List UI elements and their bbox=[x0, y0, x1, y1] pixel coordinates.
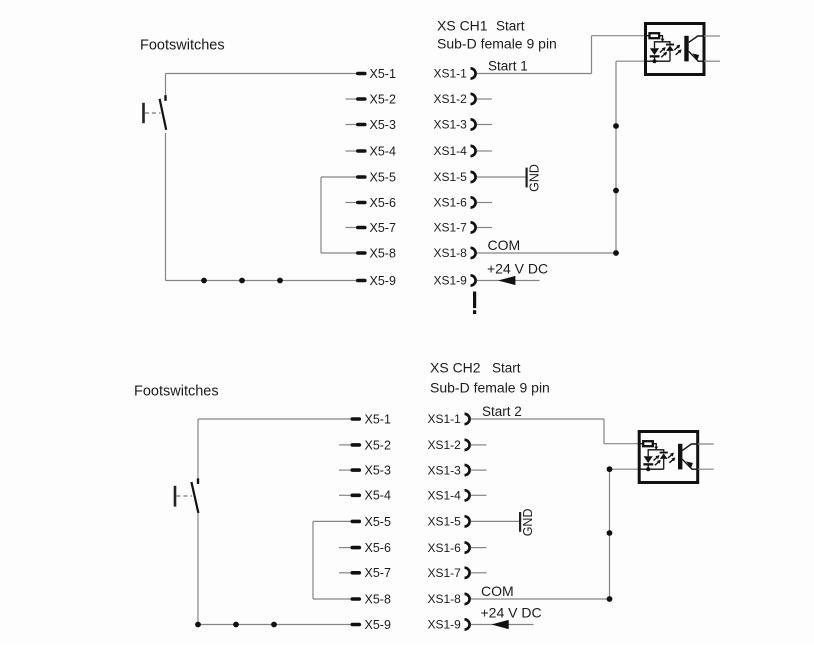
wire XS1-5 to GND (CH1) bbox=[477, 176, 526, 178]
junction dot bus 3 (CH2) bbox=[607, 596, 613, 602]
svg-text:XS1-8: XS1-8 bbox=[428, 592, 462, 606]
junction dot bus 3 (CH1) bbox=[613, 250, 619, 256]
socket contact XS1-9 (CH1) bbox=[471, 275, 476, 285]
svg-text:X5-8: X5-8 bbox=[370, 246, 396, 260]
wire X5-6 stub (CH1) bbox=[346, 202, 357, 204]
wire X5-3 stub (CH2) bbox=[339, 469, 351, 471]
svg-text:XS1-6: XS1-6 bbox=[434, 196, 468, 210]
terminal X5-5 (CH1) bbox=[356, 175, 367, 179]
svg-text:Start 2: Start 2 bbox=[482, 404, 522, 419]
terminal X5-5 (CH2) bbox=[351, 520, 362, 524]
junction dot bottom wire 3 (CH2) bbox=[271, 622, 277, 628]
wire X5-2 stub (CH2) bbox=[339, 444, 351, 446]
socket contact XS1-9 (CH2) bbox=[465, 619, 470, 629]
wire switch lower segment (CH2) bbox=[197, 513, 199, 624]
footswitch S2 contact tick bbox=[197, 478, 199, 484]
svg-text:XS CH2: XS CH2 bbox=[430, 360, 481, 376]
junction dot bottom wire 2 (CH1) bbox=[239, 278, 245, 284]
wire COM bus vertical (CH2) bbox=[609, 469, 611, 599]
svg-text:X5-9: X5-9 bbox=[370, 274, 396, 288]
svg-text:XS1-8: XS1-8 bbox=[434, 246, 468, 260]
svg-text:COM: COM bbox=[488, 237, 521, 253]
terminal X5-3 (CH2) bbox=[351, 468, 362, 472]
svg-text:XS1-2: XS1-2 bbox=[428, 438, 462, 452]
svg-text:X5-7: X5-7 bbox=[365, 566, 391, 580]
wire XS1-6 stub (CH2) bbox=[471, 547, 487, 549]
svg-text:COM: COM bbox=[481, 583, 514, 599]
terminal X5-8 (CH2) bbox=[351, 597, 362, 601]
socket contact XS1-8 (CH1) bbox=[471, 248, 476, 258]
GND bar (CH2) bbox=[519, 512, 521, 532]
svg-text:X5-3: X5-3 bbox=[370, 118, 396, 132]
wire X5-4 stub (CH1) bbox=[346, 150, 357, 152]
wire COM (CH1) bbox=[477, 252, 616, 254]
svg-text:Sub-D female 9 pin: Sub-D female 9 pin bbox=[437, 36, 557, 52]
footswitch S1 linkage (dashed) bbox=[145, 112, 161, 114]
wire X5-8 stub (CH2) bbox=[313, 598, 351, 600]
terminal X5-8 (CH1) bbox=[356, 251, 367, 255]
wire bracket X5-5 to X5-8 (CH1) bbox=[320, 177, 322, 253]
svg-text:X5-3: X5-3 bbox=[365, 464, 391, 478]
wire XS1-7 stub (CH2) bbox=[471, 572, 487, 574]
svg-text:X5-1: X5-1 bbox=[370, 67, 396, 81]
wire switch lower segment (CH1) bbox=[165, 133, 167, 281]
junction dot bus 1 (CH1) bbox=[613, 123, 619, 129]
svg-text:XS1-2: XS1-2 bbox=[434, 92, 468, 106]
svg-text:XS CH1: XS CH1 bbox=[437, 18, 488, 34]
socket contact XS1-5 (CH1) bbox=[471, 172, 476, 182]
continuation mark dot (CH1) bbox=[473, 310, 476, 314]
svg-text:X5-2: X5-2 bbox=[370, 92, 396, 106]
socket contact XS1-6 (CH2) bbox=[465, 543, 470, 553]
wire X5-7 stub (CH1) bbox=[346, 227, 357, 229]
footswitch S1 pedal bar bbox=[142, 103, 145, 123]
svg-text:X5-6: X5-6 bbox=[365, 541, 391, 555]
svg-text:X5-8: X5-8 bbox=[365, 592, 391, 606]
junction dot bus 1 (CH2) bbox=[607, 466, 613, 472]
wire X5-6 stub (CH2) bbox=[339, 547, 351, 549]
optocoupler U1 (CH1) bbox=[644, 24, 720, 75]
wire bus to optocoupler emitter rail (CH1) bbox=[616, 60, 646, 62]
socket contact XS1-1 (CH1) bbox=[471, 68, 476, 78]
continuation mark bar (CH1) bbox=[473, 292, 476, 309]
wire Start 1 into optocoupler bbox=[592, 35, 647, 37]
svg-text:X5-2: X5-2 bbox=[365, 438, 391, 452]
terminal X5-6 (CH2) bbox=[351, 546, 362, 550]
svg-text:XS1-7: XS1-7 bbox=[428, 566, 462, 580]
wire +24V DC (CH2) bbox=[471, 624, 534, 626]
terminal X5-6 (CH1) bbox=[356, 201, 367, 205]
junction dot bus 2 (CH2) bbox=[607, 530, 613, 536]
svg-text:XS1-5: XS1-5 bbox=[434, 170, 468, 184]
svg-text:X5-5: X5-5 bbox=[365, 515, 391, 529]
wire X5-1 top net (CH2) bbox=[198, 418, 351, 420]
terminal X5-1 (CH2) bbox=[351, 417, 362, 421]
svg-text:+24 V DC: +24 V DC bbox=[487, 261, 548, 277]
junction dot bottom wire 1 (CH2) bbox=[195, 622, 201, 628]
socket contact XS1-7 (CH1) bbox=[471, 222, 476, 232]
junction dot bottom wire 2 (CH2) bbox=[233, 622, 239, 628]
wire Start 1 vertical bbox=[591, 36, 593, 74]
socket contact XS1-4 (CH1) bbox=[471, 146, 476, 156]
wire XS1-3 stub (CH1) bbox=[477, 124, 492, 126]
wire X5-1 top net (CH1) bbox=[166, 73, 357, 75]
svg-text:XS1-1: XS1-1 bbox=[434, 67, 468, 81]
wire X5-9 bottom net (CH1) bbox=[166, 280, 357, 282]
terminal X5-2 (CH1) bbox=[356, 97, 367, 101]
svg-text:X5-1: X5-1 bbox=[365, 412, 391, 426]
terminal X5-7 (CH1) bbox=[356, 226, 367, 230]
wire X5-4 stub (CH2) bbox=[339, 494, 351, 496]
junction dot bottom wire 3 (CH1) bbox=[277, 278, 283, 284]
arrow +24V DC (CH2) bbox=[491, 620, 508, 629]
wire X5-7 stub (CH2) bbox=[339, 572, 351, 574]
wire bracket X5-5 to X5-8 (CH2) bbox=[312, 521, 314, 599]
terminal X5-1 (CH1) bbox=[356, 72, 367, 76]
wire Start 1 horizontal bbox=[477, 73, 592, 75]
svg-text:XS1-4: XS1-4 bbox=[428, 489, 462, 503]
wire XS1-6 stub (CH1) bbox=[477, 202, 492, 204]
wire XS1-4 stub (CH2) bbox=[471, 494, 487, 496]
svg-text:X5-4: X5-4 bbox=[365, 489, 391, 503]
svg-text:XS1-1: XS1-1 bbox=[428, 412, 462, 426]
wire XS1-7 stub (CH1) bbox=[477, 227, 492, 229]
junction dot bottom wire 1 (CH1) bbox=[201, 278, 207, 284]
socket contact XS1-2 (CH2) bbox=[465, 440, 470, 450]
svg-text:XS1-9: XS1-9 bbox=[434, 274, 468, 288]
wire Start 2 horizontal bbox=[471, 418, 604, 420]
socket contact XS1-3 (CH2) bbox=[465, 465, 470, 475]
footswitch S2 blade bbox=[191, 482, 198, 513]
socket contact XS1-4 (CH2) bbox=[465, 490, 470, 500]
footswitch S2 linkage (dashed) bbox=[177, 495, 193, 497]
wire X5-8 stub (CH1) bbox=[321, 252, 357, 254]
svg-text:GND: GND bbox=[528, 164, 542, 192]
terminal X5-4 (CH1) bbox=[356, 149, 367, 153]
svg-text:XS1-9: XS1-9 bbox=[428, 618, 462, 632]
socket contact XS1-1 (CH2) bbox=[465, 414, 470, 424]
socket contact XS1-8 (CH2) bbox=[465, 594, 470, 604]
junction dot bus 2 (CH1) bbox=[613, 188, 619, 194]
svg-text:XS1-3: XS1-3 bbox=[428, 463, 462, 477]
svg-text:Sub-D female 9 pin: Sub-D female 9 pin bbox=[430, 380, 550, 396]
terminal X5-3 (CH1) bbox=[356, 123, 367, 127]
svg-text:Footswitches: Footswitches bbox=[140, 38, 225, 54]
footswitch S1 contact tick bbox=[164, 95, 166, 101]
svg-text:XS1-4: XS1-4 bbox=[434, 144, 468, 158]
wire XS1-2 stub (CH1) bbox=[477, 98, 492, 100]
svg-text:Start: Start bbox=[496, 19, 525, 34]
terminal X5-9 (CH1) bbox=[356, 279, 367, 283]
socket contact XS1-2 (CH1) bbox=[471, 94, 476, 104]
wire COM bus vertical (CH1) bbox=[615, 61, 617, 253]
footswitch S2 pedal bar bbox=[174, 486, 177, 507]
wire XS1-4 stub (CH1) bbox=[477, 150, 492, 152]
wire bus to optocoupler emitter rail (CH2) bbox=[610, 468, 641, 470]
wire X5-5 stub (CH1) bbox=[321, 176, 357, 178]
socket contact XS1-6 (CH1) bbox=[471, 197, 476, 207]
svg-text:X5-7: X5-7 bbox=[370, 221, 396, 235]
svg-text:Footswitches: Footswitches bbox=[134, 384, 219, 400]
wire switch upper segment (CH1) bbox=[165, 74, 167, 100]
wire COM (CH2) bbox=[471, 598, 610, 600]
wire XS1-3 stub (CH2) bbox=[471, 469, 487, 471]
svg-text:GND: GND bbox=[521, 509, 535, 537]
svg-text:X5-6: X5-6 bbox=[370, 196, 396, 210]
svg-text:X5-4: X5-4 bbox=[370, 144, 396, 158]
wire X5-2 stub (CH1) bbox=[346, 98, 357, 100]
svg-text:X5-9: X5-9 bbox=[365, 618, 391, 632]
terminal X5-2 (CH2) bbox=[351, 443, 362, 447]
terminal X5-9 (CH2) bbox=[351, 623, 362, 627]
wire X5-5 stub (CH2) bbox=[313, 520, 351, 522]
svg-text:+24 V DC: +24 V DC bbox=[481, 605, 542, 621]
svg-text:XS1-6: XS1-6 bbox=[428, 541, 462, 555]
terminal X5-7 (CH2) bbox=[351, 571, 362, 575]
svg-text:X5-5: X5-5 bbox=[370, 170, 396, 184]
GND bar (CH1) bbox=[526, 168, 528, 188]
socket contact XS1-7 (CH2) bbox=[465, 568, 470, 578]
svg-text:XS1-7: XS1-7 bbox=[434, 221, 468, 235]
socket contact XS1-5 (CH2) bbox=[465, 516, 470, 526]
svg-text:XS1-5: XS1-5 bbox=[428, 515, 462, 529]
optocoupler U2 (CH2) bbox=[638, 432, 714, 483]
wire X5-9 bottom net (CH2) bbox=[198, 624, 351, 626]
arrow +24V DC (CH1) bbox=[498, 276, 515, 285]
terminal X5-4 (CH2) bbox=[351, 494, 362, 498]
svg-text:Start: Start bbox=[492, 361, 521, 376]
socket contact XS1-3 (CH1) bbox=[471, 119, 476, 129]
footswitch S1 blade bbox=[160, 99, 167, 130]
wire Start 2 into optocoupler bbox=[604, 443, 640, 445]
svg-text:Start 1: Start 1 bbox=[488, 59, 528, 74]
wire XS1-5 to GND (CH2) bbox=[471, 520, 519, 522]
wire XS1-2 stub (CH2) bbox=[471, 444, 487, 446]
wire X5-3 stub (CH1) bbox=[346, 124, 357, 126]
wire +24V DC (CH1) bbox=[477, 280, 540, 282]
wire Start 2 vertical bbox=[603, 419, 605, 444]
svg-text:XS1-3: XS1-3 bbox=[434, 118, 468, 132]
wire switch upper segment (CH2) bbox=[197, 419, 199, 479]
